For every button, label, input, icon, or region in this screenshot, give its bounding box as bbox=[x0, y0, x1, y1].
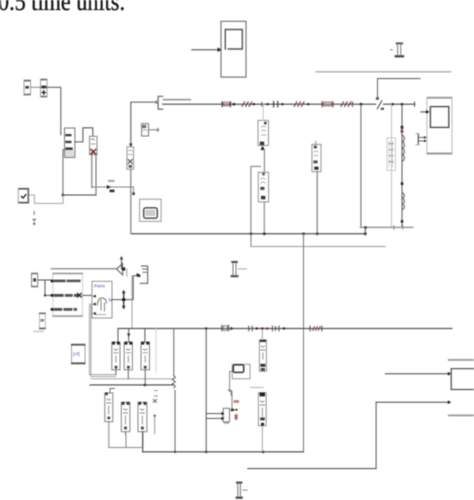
junction dot bbox=[233, 103, 236, 106]
machine port dots bbox=[51, 280, 54, 283]
breaker CB bbox=[376, 97, 384, 110]
multiply mark bbox=[78, 293, 82, 297]
wire B3 down to bus bbox=[316, 172, 318, 234]
wire G3 to ground bus bbox=[142, 432, 144, 452]
series component RL1 bbox=[222, 102, 231, 107]
demux gray bus down bbox=[89, 304, 91, 376]
wire into right scope 2 bbox=[376, 401, 448, 403]
fault bus corner drop bbox=[117, 329, 119, 343]
svg-text:Perm: Perm bbox=[94, 283, 105, 288]
main top bus bbox=[163, 103, 415, 105]
wire return bus left drop bbox=[130, 169, 132, 234]
return bus bbox=[132, 233, 365, 235]
branch component V2 bbox=[258, 392, 266, 425]
wire mux input3 riser bbox=[63, 150, 65, 195]
return bus dots bbox=[250, 232, 253, 235]
RMS block bbox=[90, 136, 98, 154]
svg-text:0.5 time units.: 0.5 time units. bbox=[0, 0, 125, 16]
junction dot bbox=[253, 103, 255, 105]
breaker block G2 bbox=[121, 402, 130, 435]
powergui block bbox=[140, 199, 162, 221]
tie to return bus bbox=[364, 227, 366, 233]
tie line 2 bbox=[251, 246, 385, 248]
wire B2 to bus bbox=[263, 202, 265, 234]
wire RMS left pin down bbox=[91, 155, 93, 188]
machine block bbox=[52, 273, 83, 317]
ground bus bbox=[143, 451, 304, 453]
label bar bbox=[163, 99, 191, 101]
scope Scope bbox=[221, 21, 246, 77]
CB block mid bbox=[127, 147, 134, 170]
wire transformer left leg bbox=[391, 104, 393, 227]
tie line bbox=[360, 226, 412, 228]
scope sub block bbox=[223, 390, 239, 424]
wire k to machine bbox=[38, 280, 53, 295]
wire into right scope 1 bbox=[385, 373, 448, 375]
wire line A bbox=[316, 71, 451, 73]
series component RL2 bbox=[341, 102, 352, 107]
scope Scope1 bbox=[427, 97, 452, 155]
bottom link wire bbox=[248, 468, 376, 470]
breaker block G3 bbox=[138, 402, 147, 432]
wire breaker up bbox=[377, 79, 379, 98]
junction dot bbox=[266, 103, 268, 105]
demux block Perm bbox=[92, 281, 112, 318]
breaker block G1 bbox=[105, 389, 115, 422]
arrow into CB1 bbox=[129, 144, 133, 148]
junction dot bbox=[307, 103, 309, 105]
drop to F2 bbox=[128, 329, 130, 343]
bus end tick bbox=[414, 102, 416, 106]
svg-text:[Vf]: [Vf] bbox=[73, 352, 80, 357]
fault bus component a bbox=[248, 326, 285, 331]
load branch coil 2 bbox=[402, 193, 404, 210]
resistor lower wire bbox=[174, 390, 176, 452]
wire machine top feedback bbox=[51, 268, 116, 270]
wire B3 stub up bbox=[315, 141, 317, 144]
branch block B3 bbox=[312, 144, 321, 171]
gain triangle bbox=[117, 256, 126, 275]
gain block k bbox=[32, 273, 38, 287]
long drop wire bbox=[303, 234, 305, 452]
dashed drop bbox=[155, 329, 157, 373]
fuse block F3 bbox=[141, 342, 150, 385]
wire bus to V1 bbox=[261, 329, 263, 341]
load branch red element bbox=[401, 130, 404, 133]
junction dot bbox=[391, 103, 394, 106]
wire line B bbox=[378, 78, 421, 80]
wire 1C to sum bbox=[31, 86, 41, 88]
measurement element bbox=[416, 133, 427, 145]
wire jog bbox=[251, 166, 261, 246]
wire V2 down bbox=[261, 426, 263, 452]
drop to F3 bbox=[144, 329, 146, 343]
resistor zigzag bbox=[172, 376, 175, 388]
phase rail 2 bbox=[91, 378, 174, 380]
impedance glyph bbox=[222, 325, 234, 330]
goto tag element 3 bbox=[236, 482, 247, 499]
wire block down to fault bus bbox=[131, 276, 133, 329]
series component K1 bbox=[322, 102, 333, 107]
tie dots bbox=[364, 226, 367, 229]
ground bbox=[32, 212, 37, 225]
tick bbox=[261, 102, 263, 106]
load branch dot bbox=[401, 182, 404, 185]
series component L1 bbox=[242, 102, 252, 107]
wire right drop bbox=[375, 402, 377, 468]
load branch R bbox=[401, 126, 404, 129]
branch block B2 bbox=[258, 172, 268, 202]
wires into scope sub bbox=[206, 413, 222, 415]
junction dot bbox=[62, 194, 65, 197]
scope right outer bbox=[448, 359, 474, 416]
branch component V1 bbox=[259, 340, 266, 372]
wire bus to B1 bbox=[262, 104, 264, 120]
goto tag element bbox=[390, 42, 404, 57]
gray bus turn right bbox=[89, 375, 116, 377]
node wire Vt feedback bbox=[63, 194, 96, 196]
mux block bbox=[65, 128, 75, 158]
sum block bbox=[41, 79, 48, 97]
wire into Scope bbox=[192, 47, 222, 52]
wire G1 G2 bottom bbox=[109, 422, 143, 452]
clock block bbox=[39, 313, 46, 330]
load branch dot 2 bbox=[401, 220, 404, 222]
transformer label box bbox=[387, 138, 395, 171]
fuse block F1 bbox=[112, 342, 120, 375]
gray dash bbox=[250, 386, 263, 388]
fault bus bbox=[118, 328, 452, 330]
fuse block F2 bbox=[124, 342, 132, 379]
wire drop to lower tie bbox=[360, 104, 362, 227]
drop to resistor bbox=[173, 329, 175, 376]
wire powergui2 bbox=[230, 372, 233, 409]
phase rail 3 bbox=[90, 384, 174, 386]
wire RMS right pin down bbox=[95, 155, 97, 195]
svg-text:N: N bbox=[109, 297, 112, 302]
wire Vm1 out bbox=[149, 129, 159, 131]
junction dot bbox=[401, 103, 404, 106]
crossing arrow element bbox=[122, 290, 126, 310]
branch block B1 bbox=[258, 120, 269, 150]
connector block bbox=[155, 96, 162, 109]
series component L2 bbox=[294, 102, 304, 107]
small block Vm1 bbox=[142, 124, 149, 136]
load branch wire bbox=[401, 104, 403, 227]
wire B1 to B2 bbox=[263, 150, 265, 172]
faint label bbox=[33, 331, 44, 333]
fault bus component b bbox=[310, 326, 322, 331]
wire Vt route bbox=[29, 195, 63, 203]
display value 1.01 bbox=[107, 180, 115, 192]
small block wref bbox=[137, 266, 148, 283]
series component C1 bbox=[274, 101, 278, 107]
dashes and marks bbox=[154, 391, 157, 396]
powergui block 2 bbox=[232, 364, 250, 379]
junction dot bbox=[316, 232, 319, 235]
from tag block bbox=[71, 344, 86, 364]
drop long center bbox=[205, 329, 207, 452]
junction dot bbox=[281, 103, 283, 105]
load branch coil 1 bbox=[402, 135, 404, 161]
goto tag element 2 bbox=[231, 261, 247, 277]
wire return bus to tie2 bbox=[250, 234, 252, 247]
constant block 1C bbox=[24, 80, 31, 95]
wire Perm N out bbox=[112, 276, 140, 300]
wire sum to mux bbox=[47, 87, 61, 134]
wire display lead bbox=[92, 187, 134, 193]
wire machine to demux bbox=[83, 294, 93, 296]
wire mux output riser bbox=[75, 128, 93, 142]
wire into Scope1 bbox=[421, 110, 430, 114]
source block Vt bbox=[18, 188, 29, 203]
wire triangle down stub bbox=[126, 269, 128, 276]
junction dot bbox=[360, 103, 363, 106]
wire source bus left bbox=[131, 102, 156, 147]
